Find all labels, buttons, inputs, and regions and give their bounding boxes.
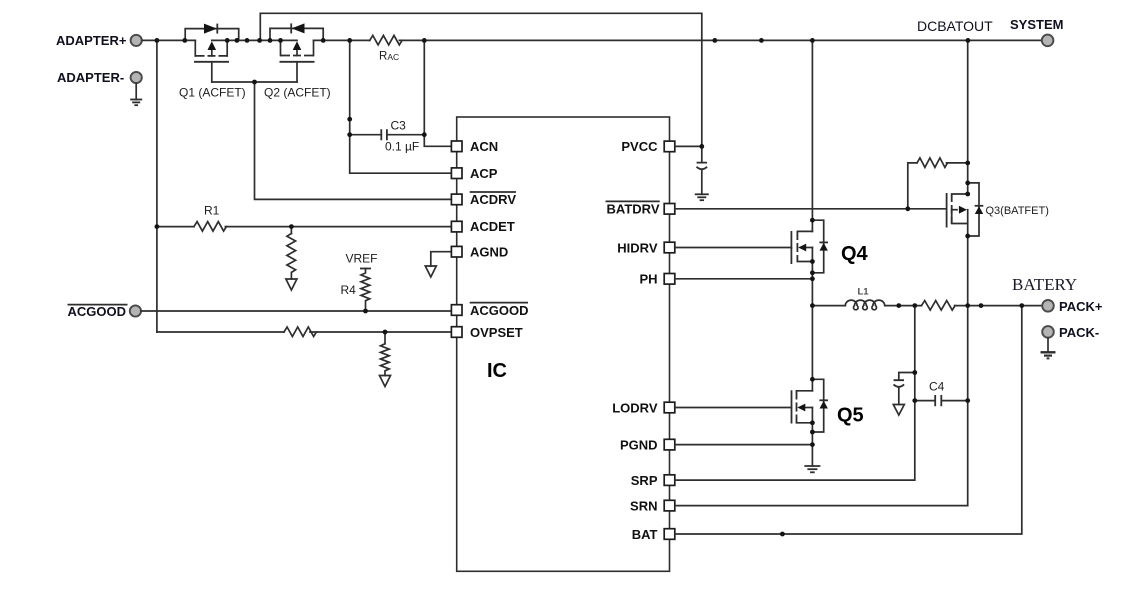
Q5 body diode: [812, 379, 823, 432]
Q4 body diode: [812, 220, 823, 273]
wire Q1/Q2 gates common to ACDRV: [212, 82, 452, 199]
Q4 source lead: [797, 261, 812, 263]
svg-text:SRN: SRN: [630, 498, 657, 513]
ground (arrow) below OVPSET divider: [380, 376, 391, 387]
resistor ACDET divider (vertical): [287, 234, 296, 280]
sense resistor: [922, 301, 956, 311]
wire PH row: [675, 278, 813, 280]
pin AGND: [451, 246, 462, 257]
wire ACGOOD row: [141, 310, 452, 312]
Q4 drain lead: [797, 230, 812, 232]
wire PVCC bypass from between FETs (top): [260, 13, 702, 146]
pin ACDET: [451, 221, 462, 232]
wire R1 row to ACDET: [157, 226, 452, 228]
Q5 source lead: [797, 422, 813, 424]
capacitor at PVCC: [701, 146, 703, 162]
svg-text:ACGOOD: ACGOOD: [68, 304, 127, 319]
Q3 drain lead: [952, 193, 968, 195]
ground below PACK-: [1041, 352, 1056, 358]
svg-text:Q2 (ACFET): Q2 (ACFET): [264, 86, 331, 100]
wire SRP column from battery row: [675, 306, 915, 481]
pin BATDRV (overlined): [664, 204, 675, 215]
wire L1 to sense resistor: [885, 305, 922, 307]
svg-text:SYSTEM: SYSTEM: [1010, 17, 1063, 32]
pin LODRV: [664, 402, 675, 413]
Q2 body-diode (points left): [292, 23, 305, 33]
ground (earth) below ADAPTER-: [130, 100, 142, 106]
ground (arrow) below output cap: [893, 405, 904, 416]
svg-text:Q1 (ACFET): Q1 (ACFET): [179, 86, 246, 100]
junction dots Q3 column: [905, 161, 970, 404]
Q5 drain lead: [797, 390, 813, 392]
resistor R1: [194, 222, 226, 232]
Q1 gate plate: [194, 61, 229, 63]
Q3 gate bar: [946, 193, 948, 228]
wire RAC right to ACN column: [424, 40, 451, 146]
Q1 body-diode (points right): [204, 24, 217, 34]
pin ACP: [451, 168, 462, 179]
Q5 substrate arrow (points left): [805, 407, 812, 409]
Q3 source vertical down to SRN row: [967, 210, 969, 506]
pin ACN: [451, 141, 462, 152]
ground (earth) below PVCC cap: [695, 194, 709, 200]
pin PGND: [664, 439, 675, 450]
svg-text:PH: PH: [639, 272, 657, 287]
inductor L1: [845, 300, 884, 310]
Q4 substrate arrow (points left): [806, 247, 812, 249]
Q3 channel (dashes): [951, 194, 953, 224]
wire PGND row: [675, 444, 813, 446]
terminal PACK+: [1042, 300, 1054, 312]
svg-text:ACP: ACP: [470, 166, 498, 181]
Q2 gate plate: [280, 61, 315, 63]
C3 plates: [381, 129, 387, 140]
pin SRN: [664, 500, 675, 511]
wire HIDRV to Q4 gate: [675, 247, 792, 249]
svg-text:IC: IC: [487, 360, 507, 382]
Q2 substrate arrow (points up): [296, 49, 298, 56]
wire adapter+ to Q1 drain: [142, 39, 195, 41]
pin BAT: [664, 529, 675, 540]
junction dots Q4/Q5 column: [810, 218, 815, 447]
Q3 drain vertical from rail: [967, 40, 969, 194]
Q5 source vertical to ground: [811, 408, 813, 467]
svg-text:AGND: AGND: [470, 245, 508, 260]
svg-text:VREF: VREF: [346, 252, 378, 266]
wire Q3 gate resistor loop: [908, 163, 917, 209]
wire OVPSET row: [157, 331, 452, 333]
ground (arrow) below ACDET divider: [286, 279, 297, 290]
svg-text:ACDRV: ACDRV: [470, 192, 516, 207]
pin PH: [664, 274, 675, 285]
junction dot ACDRV common gate: [252, 80, 257, 85]
svg-text:PGND: PGND: [620, 437, 658, 452]
ground (earth) below Q5: [804, 466, 820, 472]
wire OVPSET divider drop: [384, 332, 386, 344]
junction dot PVCC node: [699, 144, 704, 149]
Q1 body-diode loop: [185, 29, 239, 41]
C4 plates: [935, 395, 941, 406]
svg-text:BAT: BAT: [632, 527, 658, 542]
wire LODRV to Q5 gate: [675, 407, 792, 409]
capacitor output (to ground): [894, 380, 905, 387]
terminal ADAPTER+: [131, 35, 142, 46]
svg-text:R4: R4: [341, 283, 357, 297]
wire PH node to L1: [812, 305, 845, 307]
resistor on OVPSET row: [284, 327, 316, 337]
capacitor C4 row: [915, 400, 968, 402]
Q2 gate lead down: [296, 62, 298, 82]
Q2 source lead: [280, 40, 282, 55]
Q5 gate bar: [791, 390, 793, 423]
wire ACDET divider drop: [290, 227, 292, 234]
Q4 drain vertical from rail: [811, 40, 813, 231]
junction dots battery row: [780, 303, 1024, 536]
svg-text:0.1 µF: 0.1 µF: [385, 140, 419, 154]
svg-text:R1: R1: [204, 204, 220, 218]
svg-text:C3: C3: [391, 119, 407, 133]
wire ADAPTER+ drop to R1/OVPSET rows: [156, 40, 158, 332]
svg-text:PACK+: PACK+: [1059, 299, 1103, 314]
svg-text:C4: C4: [929, 380, 945, 394]
junction dots on top rail: [155, 38, 971, 43]
svg-text:ACGOOD: ACGOOD: [470, 303, 529, 318]
svg-text:OVPSET: OVPSET: [470, 325, 523, 340]
svg-text:BATERY: BATERY: [1012, 275, 1077, 294]
resistor RAC (inline zigzag): [370, 35, 402, 45]
svg-text:ACN: ACN: [470, 139, 498, 154]
svg-text:RAC: RAC: [379, 51, 399, 63]
Q3 substrate arrow (points right): [952, 209, 957, 211]
resistor at Q3 gate: [917, 158, 968, 168]
op-amp/controller IC body: [457, 117, 670, 571]
Q3 body diode: [968, 183, 979, 236]
resistor OVPSET divider (vertical): [381, 344, 390, 376]
svg-text:Q5: Q5: [837, 405, 864, 427]
wire RAC left to C3/ACP column: [350, 40, 452, 173]
Q1 source lead: [226, 40, 228, 56]
wire ADAPTER- to ground: [135, 83, 137, 99]
wire stub to output cap: [899, 373, 915, 381]
ground (arrow) below AGND: [425, 266, 436, 277]
Q1 channel (dashes): [195, 55, 229, 57]
wire PACK- to ground: [1047, 338, 1049, 353]
svg-text:L1: L1: [858, 287, 870, 298]
pin OVPSET: [451, 327, 462, 338]
wire Q2 drain to SYSTEM (top rail): [314, 39, 1042, 41]
wire Q1 source to Q2 source segment: [212, 39, 297, 41]
svg-text:DCBATOUT: DCBATOUT: [917, 18, 993, 34]
svg-text:PVCC: PVCC: [621, 139, 658, 154]
wire SRN row: [675, 505, 968, 507]
wire BAT row to battery node: [675, 306, 1022, 534]
Q3 source lead: [952, 210, 968, 224]
terminal SYSTEM: [1042, 35, 1054, 47]
wire AGND to ground: [431, 252, 452, 266]
svg-text:Q3(BATFET): Q3(BATFET): [986, 205, 1049, 217]
resistor R4 (vertical): [361, 269, 370, 312]
terminal PACK-: [1042, 326, 1054, 338]
terminal ADAPTER-: [131, 72, 142, 83]
junction dots C3 / ACP column: [347, 117, 426, 137]
svg-text:LODRV: LODRV: [612, 400, 658, 415]
pin SRP: [664, 475, 675, 486]
Q1 substrate arrow (points up): [211, 49, 213, 56]
svg-text:BATDRV: BATDRV: [607, 202, 660, 217]
Q4 channel (dashes): [796, 231, 798, 262]
Q4 gate bar: [790, 231, 792, 264]
pin ACGOOD (overlined): [451, 305, 462, 316]
wire BATDRV to Q3 gate: [675, 208, 947, 210]
pin ACDRV (overlined): [451, 194, 462, 205]
Q4 source vertical down through PH/L1 to Q5: [811, 248, 813, 391]
svg-text:ADAPTER+: ADAPTER+: [56, 33, 127, 48]
svg-text:Q4: Q4: [841, 243, 869, 265]
svg-text:HIDRV: HIDRV: [617, 240, 658, 255]
svg-text:PACK-: PACK-: [1059, 325, 1099, 340]
Q1 drain lead: [194, 40, 196, 56]
svg-text:ACDET: ACDET: [470, 219, 515, 234]
Q5 channel (dashes): [796, 391, 798, 424]
pin HIDRV: [664, 242, 675, 253]
VREF terminal bar: [360, 268, 371, 270]
wire sense resistor to PACK+: [955, 305, 1042, 307]
junction dots left rows: [155, 224, 388, 334]
terminal ACGOOD: [130, 305, 141, 316]
capacitor C3 row: [350, 134, 425, 136]
Q2 body-diode loop: [270, 28, 323, 40]
pin PVCC: [664, 141, 675, 152]
Q1 gate lead down: [211, 62, 213, 82]
svg-text:ADAPTER-: ADAPTER-: [57, 70, 124, 85]
Q2 channel (dashes): [280, 55, 314, 57]
svg-text:SRP: SRP: [631, 473, 658, 488]
Q2 drain lead: [313, 40, 315, 55]
wire PVCC to bypass column: [675, 145, 702, 147]
